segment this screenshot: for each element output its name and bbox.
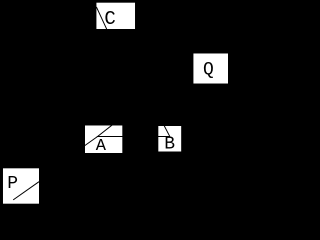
svg-text:B: B: [164, 135, 175, 155]
wire diagonal through A (lower-left segment): [77, 137, 97, 152]
svg-text:C: C: [104, 8, 115, 30]
svg-text:Q: Q: [203, 60, 214, 80]
wire through C: [96, 7, 110, 38]
wire through P: [13, 182, 39, 200]
svg-text:P: P: [7, 174, 18, 194]
outer frame: [1, 1, 232, 207]
box P: [2, 168, 39, 205]
wire A to B horizontal: [97, 136, 170, 138]
wire into B: [161, 119, 170, 137]
box A: [85, 125, 123, 154]
wire diagonal through A (upper-right segment): [97, 122, 116, 137]
box B: [158, 126, 182, 153]
svg-text:A: A: [96, 137, 107, 156]
box Q: [193, 53, 229, 84]
box C: [96, 2, 136, 29]
